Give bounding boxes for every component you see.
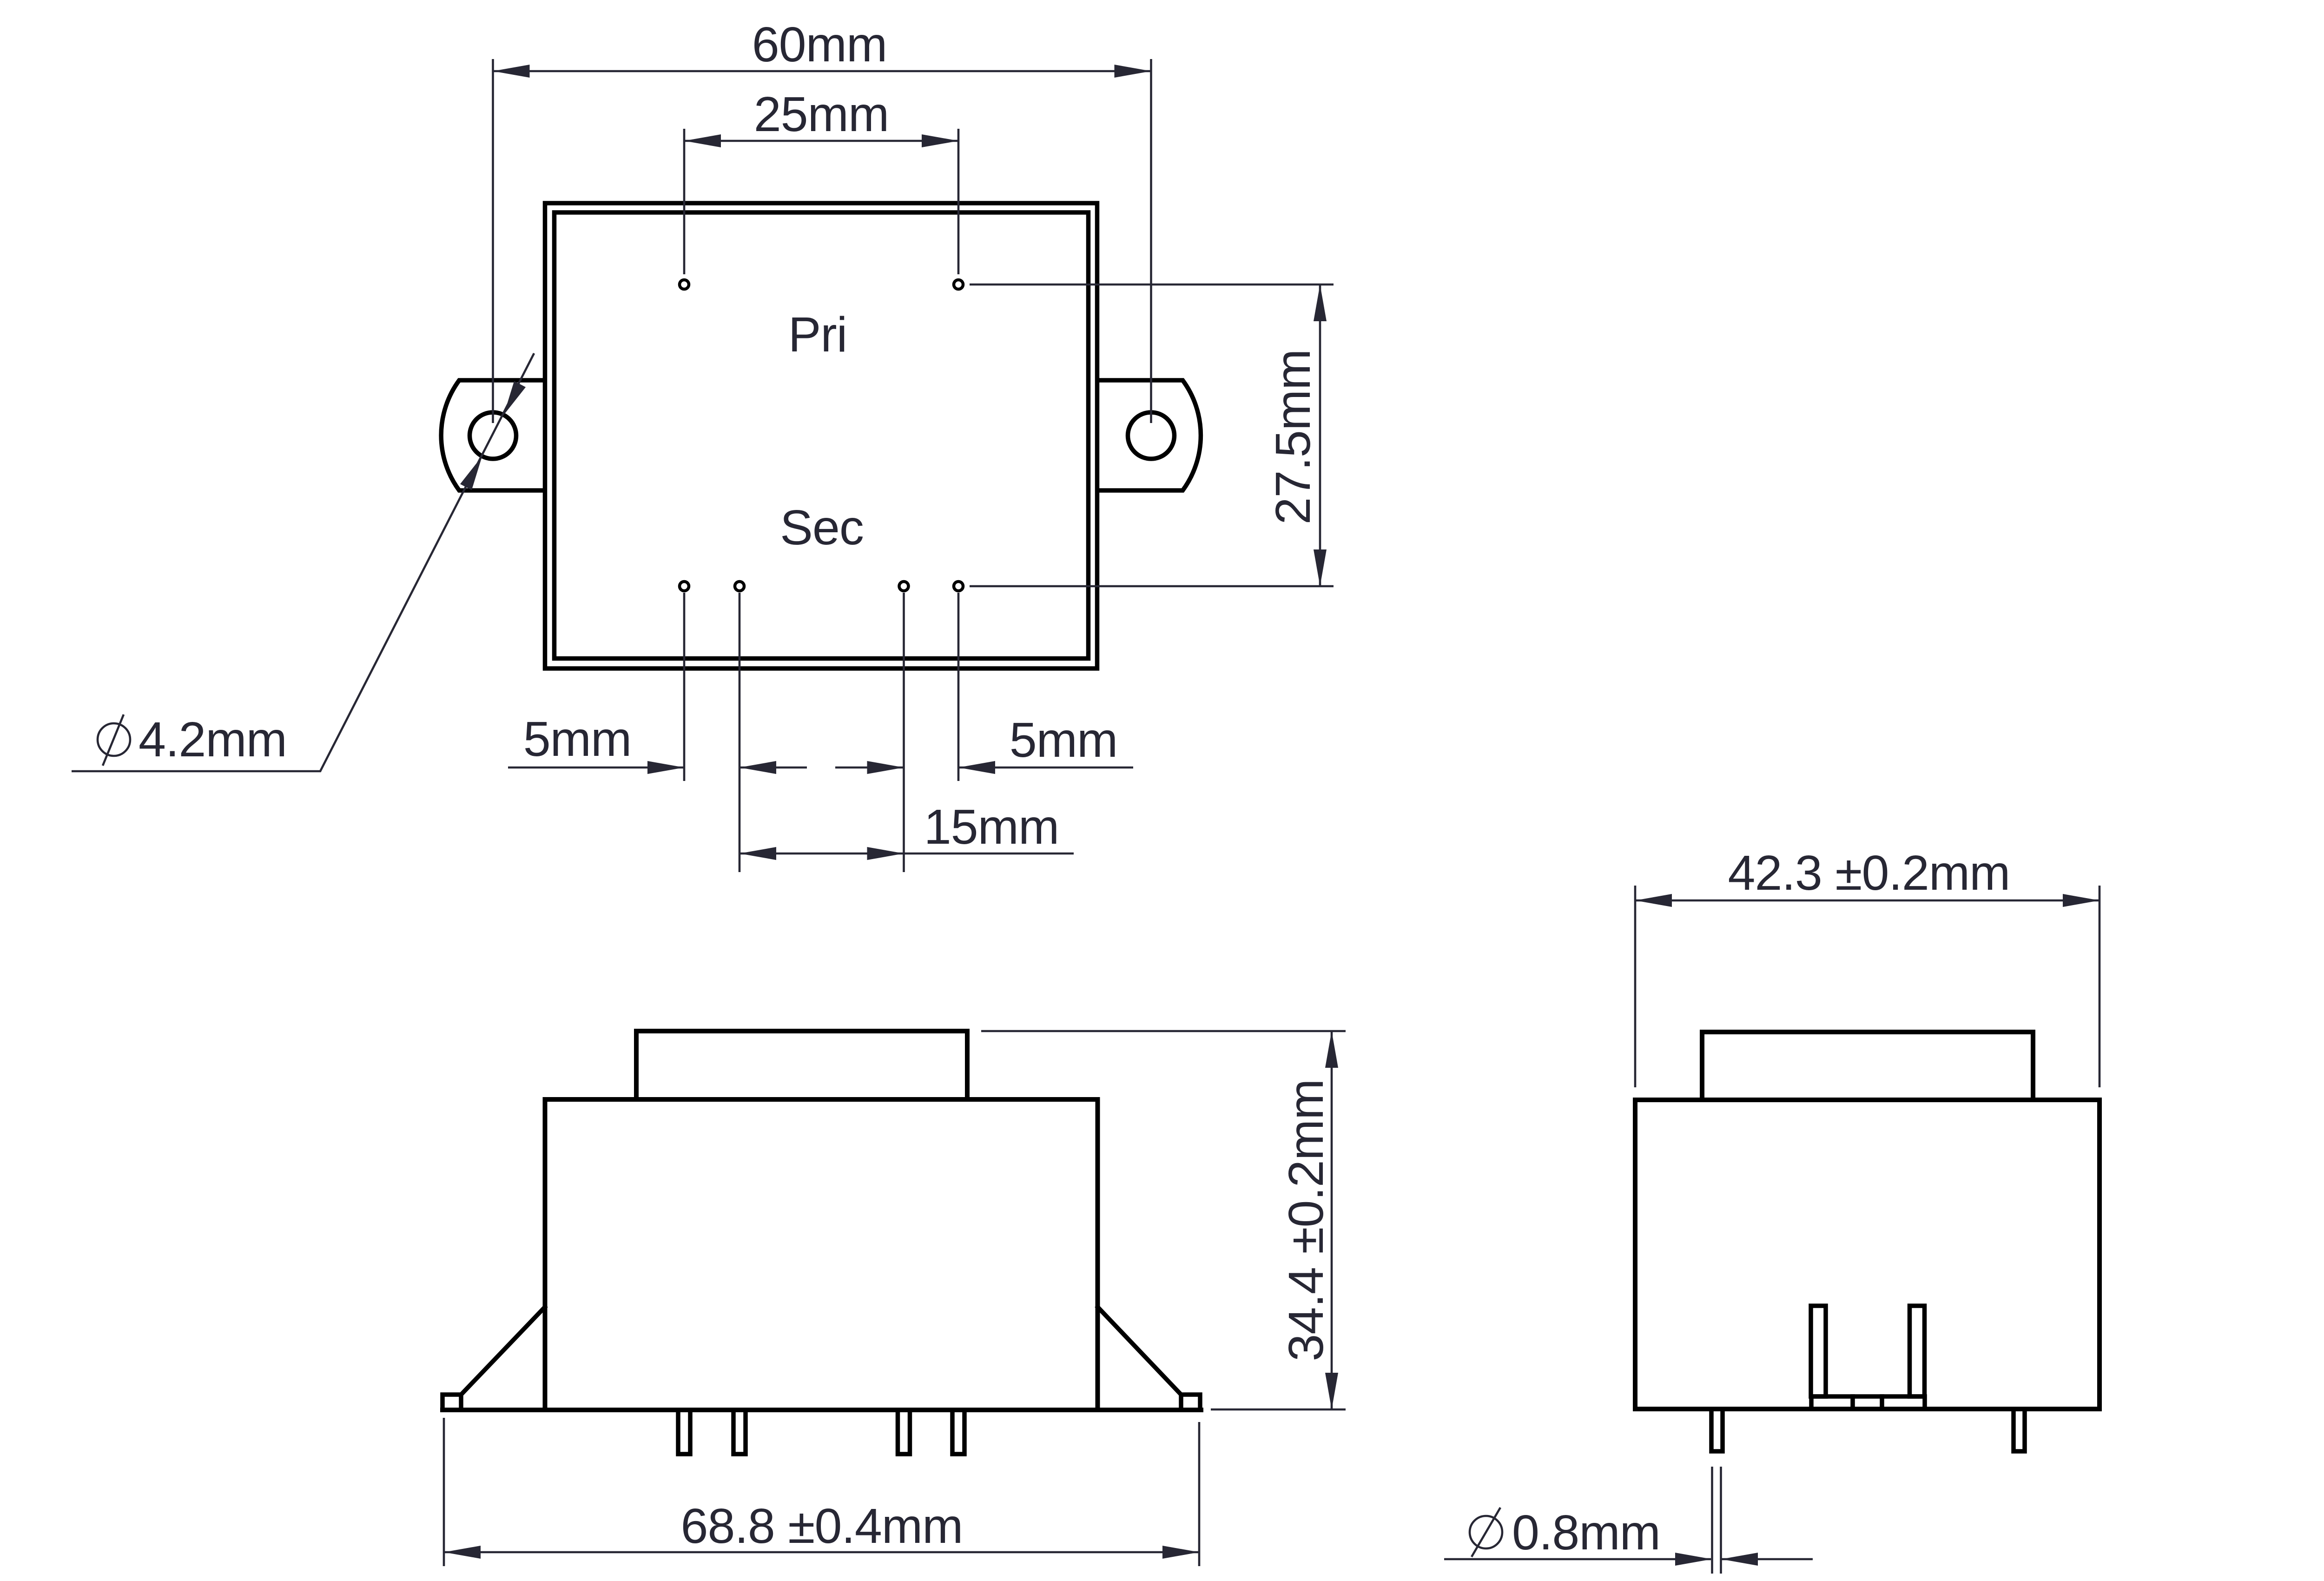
side view: rear pin [2014,1409,2025,1451]
pin extension line 3 [903,593,905,872]
svg-text:5mm: 5mm [1010,713,1118,767]
dimension 15mm: line and arrows [739,847,1074,860]
dimension 34.4mm: dimension line with arrows [1325,1031,1338,1409]
side view: bar divider left [1850,1396,1855,1409]
dimension 25mm: text [754,87,889,142]
dimension 68.8mm: extension lines [444,1418,1199,1566]
top view: right mounting tab [1097,380,1201,490]
dimension 5mm left: line and arrows [508,761,807,774]
dimension 27.5mm: dimension line with arrows [1314,284,1327,586]
top view: right tab hole 4.2mm [1128,412,1175,459]
svg-text:0.8mm: 0.8mm [1512,1505,1660,1560]
dimension 0.8mm: extension lines [1712,1467,1721,1574]
front view: pin 1 [678,1410,690,1454]
dimension 5mm right: line and arrows [835,761,1133,774]
leader for 4.2mm hole diameter [72,353,534,771]
dimension 34.4mm: text [1279,1079,1334,1362]
svg-text:34.4 ±0.2mm: 34.4 ±0.2mm [1279,1079,1334,1362]
svg-text:5mm: 5mm [523,712,632,767]
side view: bobbin base bar [1811,1396,1925,1409]
top view: left tab hole 4.2mm [470,412,516,459]
dimension 34.4mm: extension lines [981,1031,1346,1409]
svg-text:4.2mm: 4.2mm [139,712,287,767]
dimension 60mm: text [752,17,887,72]
front view: right flange diagonal [1098,1307,1181,1395]
side view: bar divider right [1880,1396,1884,1409]
front view: pin 4 [952,1410,964,1454]
top view: secondary pin hole 3 [899,582,909,591]
dimension 42.3mm: dimension line with arrows [1635,894,2100,907]
dimension 5mm left: text [523,712,632,767]
front view: pin 2 [733,1410,746,1454]
top view: inner case line [555,212,1089,659]
front view: base line [442,1408,1201,1412]
front view: left foot [442,1395,461,1410]
dimension 60mm: dimension line with arrows [493,65,1151,78]
top view: secondary pin hole 2 [735,582,744,591]
front view: left flange diagonal [461,1307,545,1395]
label diameter 4.2mm: symbol [98,714,130,766]
svg-text:Pri: Pri [788,307,847,362]
front view: bobbin cap [636,1031,967,1099]
dimension 60mm: extension lines [493,59,1151,423]
side view: bobbin cap [1702,1032,2033,1100]
svg-text:42.3 ±0.2mm: 42.3 ±0.2mm [1728,846,2010,900]
dimension 68.8mm: dimension line with arrows [444,1546,1199,1559]
side view: left pin slot [1811,1306,1826,1396]
front view: pin 3 [898,1410,910,1454]
top view: left mounting tab [441,380,545,490]
front view: body outline [545,1099,1098,1410]
label Pri [788,307,847,362]
top view: outer case outline [545,203,1097,668]
svg-text:25mm: 25mm [754,87,889,142]
dimension 27.5mm: extension lines [970,284,1334,586]
dimension 15mm: text [924,800,1059,854]
dimension 0.8mm: text [1512,1505,1660,1560]
label Sec [780,500,864,555]
svg-text:68.8 ±0.4mm: 68.8 ±0.4mm [681,1499,963,1554]
top view: secondary pin hole 1 [680,582,689,591]
dimension 25mm: dimension line with arrows [684,134,958,147]
svg-text:Sec: Sec [780,500,864,555]
dimension 25mm: extension lines [684,129,958,274]
dimension 5mm right: text [1010,713,1118,767]
dimension 27.5mm: text [1266,350,1320,525]
label diameter 0.8mm: symbol [1470,1508,1502,1557]
top view: primary pin hole left [680,280,689,289]
dimension 42.3mm: extension lines [1635,886,2100,1087]
dimension 68.8mm: text [681,1499,963,1554]
svg-text:15mm: 15mm [924,800,1059,854]
dimension 42.3mm: text [1728,846,2010,900]
pin extension line 1 [683,593,686,781]
label diameter 4.2mm: text [139,712,287,767]
side view: body outline [1635,1100,2100,1409]
pin extension line 4 [957,593,960,781]
svg-text:60mm: 60mm [752,17,887,72]
front view: right foot [1181,1395,1200,1410]
side view: right pin slot [1910,1306,1925,1396]
side view: front pin [1711,1409,1723,1451]
svg-text:27.5mm: 27.5mm [1266,350,1320,525]
top view: primary pin hole right [954,280,963,289]
pin extension line 2 [739,593,741,872]
top view: secondary pin hole 4 [954,582,963,591]
dimension 0.8mm: dimension line with arrows [1444,1553,1813,1566]
